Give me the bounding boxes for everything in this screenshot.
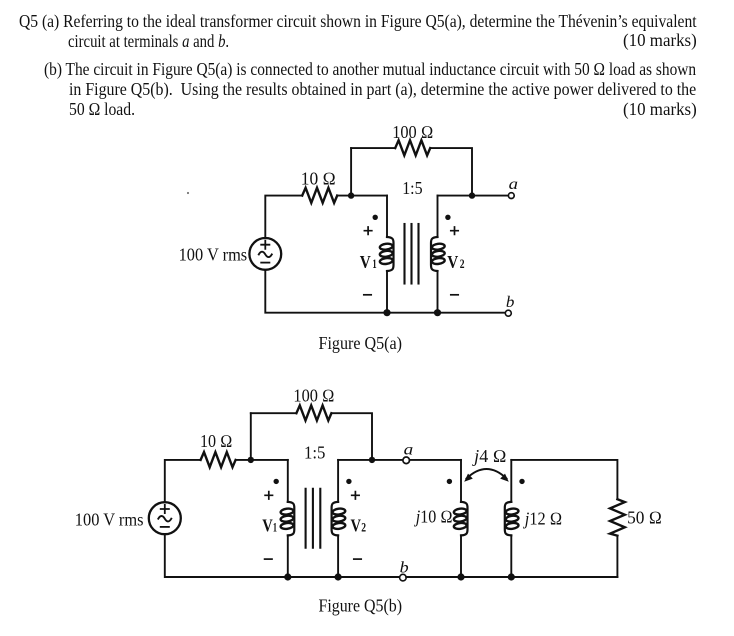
junction dot V1 bottom (b)	[284, 573, 291, 580]
wire secondary top to terminal a	[438, 195, 509, 197]
wire top branch left (b)	[251, 412, 297, 414]
polarity dot V1 (b)	[274, 479, 279, 484]
svg-text:j10 Ω: j10 Ω	[414, 506, 453, 526]
svg-text:1: 1	[273, 521, 277, 535]
inductor L4 V2 coil	[332, 502, 346, 536]
svg-text:Figure Q5(b): Figure Q5(b)	[319, 596, 403, 617]
label plus V1 (b)	[265, 492, 272, 499]
header paragraph (b) line 3	[69, 99, 135, 119]
wire j12 vertical top	[510, 460, 512, 502]
svg-text:b: b	[400, 559, 409, 576]
resistor R1 10 ohm	[302, 188, 337, 203]
wire secondary vertical bottom	[437, 271, 439, 313]
wire primary vertical bottom	[386, 271, 388, 313]
svg-text:j12 Ω: j12 Ω	[523, 508, 562, 528]
junction dot primary bottom	[383, 309, 390, 316]
wire j12 top to load	[511, 460, 617, 499]
voltage source VS1	[249, 238, 281, 270]
wire source bottom and bottom rail	[265, 270, 505, 313]
wire source bottom and bottom rail (b)	[165, 534, 400, 577]
svg-text:1:5: 1:5	[402, 178, 422, 198]
label plus secondary	[451, 227, 458, 234]
voltage source VS2	[149, 502, 181, 534]
junction dot secondary bottom	[434, 309, 441, 316]
svg-text:b: b	[506, 294, 515, 311]
polarity dot j10	[447, 479, 452, 484]
inductor L5 j10 coil	[453, 502, 467, 536]
wire top branch right down to secondary node	[431, 148, 472, 196]
svg-text:a: a	[404, 441, 414, 458]
wire source top to 10 ohm	[165, 460, 201, 502]
polarity dot secondary	[445, 215, 450, 220]
resistor R2 100 ohm	[395, 140, 430, 155]
junction dot j10 bottom	[457, 573, 464, 580]
svg-text:100 V rms: 100 V rms	[75, 510, 144, 530]
svg-text:Figure Q5(a): Figure Q5(a)	[319, 333, 403, 354]
svg-text:1:5: 1:5	[304, 442, 325, 462]
transformer core	[405, 224, 419, 284]
inductor L2 secondary coil	[431, 237, 445, 271]
header paragraph (b) line 2	[69, 79, 696, 99]
label minus V2 (b)	[354, 558, 361, 560]
header paragraph (b) line 1	[44, 59, 696, 79]
polarity dot j12	[519, 479, 524, 484]
wire V2 vertical top	[337, 460, 339, 502]
wire source top to 10 ohm	[265, 196, 302, 238]
inductor L6 j12 coil	[505, 502, 519, 536]
wire V1 vertical bottom	[287, 535, 289, 577]
terminal a (b)	[403, 457, 410, 464]
svg-text:10 Ω: 10 Ω	[301, 168, 336, 188]
wire V2 vertical bottom	[337, 535, 339, 577]
header paragraph (a) line 2	[68, 31, 229, 51]
wire terminal a to j10	[410, 459, 462, 461]
resistor R3 10 ohm	[201, 452, 236, 467]
transformer core (b)	[306, 489, 321, 548]
label minus secondary	[451, 294, 458, 296]
header paragraph (a) line 1	[19, 11, 697, 31]
wire junction up to 100 ohm branch	[250, 413, 252, 460]
svg-text:50 Ω: 50 Ω	[627, 508, 662, 528]
svg-text:10 Ω: 10 Ω	[200, 431, 233, 451]
junction dot V2 bottom (b)	[335, 573, 342, 580]
terminal a	[508, 193, 514, 199]
wire V2 top to terminal a	[338, 459, 403, 461]
terminal b	[505, 310, 511, 316]
svg-text:1: 1	[372, 257, 376, 271]
polarity dot primary	[373, 215, 378, 220]
header (a) marks	[623, 30, 697, 50]
wire junction up to top branch	[350, 148, 352, 196]
wire top branch right down to secondary wire	[332, 413, 372, 460]
wire V1 vertical top	[287, 460, 289, 502]
node junction dot secondary top	[469, 192, 475, 198]
header (b) marks	[623, 99, 697, 119]
node junction dot (b) left	[248, 457, 254, 463]
svg-text:2: 2	[361, 521, 366, 535]
label minus primary	[364, 294, 371, 296]
mutual coupling arrow	[464, 469, 509, 482]
svg-text:V: V	[351, 516, 362, 536]
svg-text:100 V rms: 100 V rms	[179, 245, 248, 265]
svg-text:100 Ω: 100 Ω	[392, 122, 433, 142]
node junction dot (b) secondary top	[369, 457, 375, 463]
wire top branch left	[351, 147, 395, 149]
wire primary vertical top	[386, 196, 388, 237]
wire terminal b to load bottom	[406, 576, 617, 578]
wire j12 vertical bottom	[510, 535, 512, 577]
svg-text:2: 2	[460, 257, 465, 271]
wire j10 vertical bottom	[460, 535, 462, 577]
polarity dot V2 (b)	[346, 479, 351, 484]
svg-text:100 Ω: 100 Ω	[293, 385, 334, 405]
wire j10 vertical top	[460, 460, 462, 502]
stray mark	[187, 192, 189, 194]
resistor R5 50 ohm	[610, 499, 625, 535]
label plus primary	[364, 227, 371, 234]
svg-text:V: V	[360, 252, 371, 272]
junction dot j12 bottom	[508, 573, 515, 580]
inductor L1 primary coil	[379, 237, 393, 271]
resistor R4 100 ohm	[296, 405, 331, 420]
svg-text:V: V	[262, 516, 273, 536]
wire secondary vertical top	[437, 196, 439, 237]
wire load bottom	[616, 536, 618, 577]
label plus V2 (b)	[352, 492, 359, 499]
node junction dot	[348, 192, 354, 198]
svg-text:V: V	[447, 252, 458, 272]
wire 10 ohm to primary top	[337, 195, 387, 197]
label minus V1 (b)	[265, 558, 272, 560]
inductor L3 V1 coil	[280, 502, 294, 536]
wire 10 ohm to V1 top	[237, 459, 288, 461]
svg-text:a: a	[509, 176, 518, 193]
svg-text:j4 Ω: j4 Ω	[472, 446, 506, 466]
terminal b (b)	[400, 574, 407, 581]
